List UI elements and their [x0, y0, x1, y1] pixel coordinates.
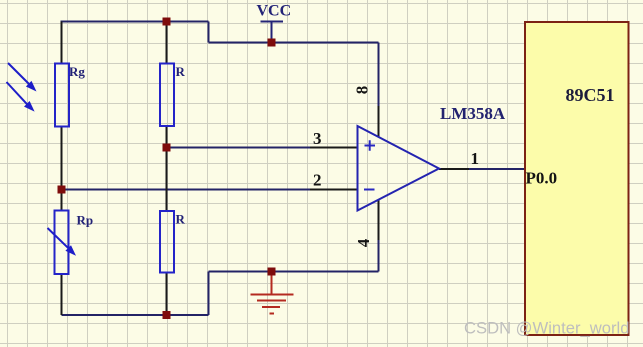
pin 4 stub of op-amp	[378, 200, 380, 240]
svg-text:LM358A: LM358A	[440, 104, 506, 123]
resistor R2 body	[160, 211, 174, 273]
junction at top rail / R1 branch	[163, 18, 171, 26]
svg-text:VCC: VCC	[257, 3, 292, 20]
svg-text:CSDN @Winter_world: CSDN @Winter_world	[464, 319, 630, 338]
svg-text:R: R	[176, 212, 186, 227]
svg-text:2: 2	[313, 171, 322, 190]
svg-text:P0.0: P0.0	[526, 169, 558, 188]
op-amp U1 triangle	[358, 126, 440, 211]
svg-text:1: 1	[471, 149, 480, 168]
svg-text:8: 8	[352, 86, 371, 95]
op-amp minus input marker	[364, 189, 375, 191]
wire: middle branch vertical between R1 and R2	[166, 127, 168, 212]
wire: step-up vertical at x=208	[208, 272, 210, 316]
wire: vertical up to op-amp pin 4	[378, 240, 380, 272]
wire: left branch vertical lower lead	[61, 274, 63, 315]
svg-text:89C51: 89C51	[566, 85, 615, 105]
wire: node A net to pin 3	[167, 147, 311, 149]
wiper arrow through Rp	[48, 228, 77, 256]
svg-text:3: 3	[313, 129, 322, 148]
pin 8 stub of op-amp	[378, 106, 380, 137]
junction at VCC rail	[268, 39, 276, 47]
resistor Rp body	[55, 211, 69, 275]
pin 2 stub of op-amp	[310, 189, 358, 191]
node B junction (pin 2 net)	[58, 186, 66, 194]
node A junction (pin 3 net)	[163, 144, 171, 152]
junction at bottom rail	[163, 311, 171, 319]
wire: op-amp output to 89C51 P0.0	[469, 168, 525, 170]
svg-text:R: R	[176, 64, 186, 79]
wire: ground rail to op-amp pin 4	[209, 271, 379, 273]
resistor R1 body	[160, 64, 174, 127]
wire: middle branch vertical lower lead	[166, 273, 168, 316]
svg-text:Rp: Rp	[77, 213, 94, 228]
wire: step-down vertical at x=208	[208, 22, 210, 43]
svg-text:Rg: Rg	[69, 64, 85, 79]
wire: top rail from left branch to step corner	[61, 21, 209, 23]
junction at ground rail	[268, 268, 276, 276]
pin 3 stub of op-amp	[310, 147, 358, 149]
wire: left branch vertical between Rg and Rp	[61, 127, 63, 211]
ground symbol	[251, 274, 294, 314]
op-amp plus input marker	[365, 140, 376, 150]
light arrow 1 into Rg	[8, 63, 37, 92]
wire: node B net to pin 2	[62, 189, 311, 191]
power symbol VCC	[261, 22, 284, 43]
resistor Rg body	[55, 64, 69, 127]
light arrow 2 into Rg	[7, 82, 35, 112]
svg-text:4: 4	[354, 238, 373, 247]
IC 89C51 body	[525, 22, 629, 335]
wire: middle branch vertical upper lead	[166, 22, 168, 64]
wire: left branch vertical upper lead	[61, 22, 63, 64]
wire: VCC rail to op-amp pin 8	[209, 42, 379, 44]
wire: bottom rail	[62, 314, 209, 316]
pin 1 stub of op-amp output	[439, 168, 469, 170]
wire: vertical down to op-amp pin 8	[378, 43, 380, 107]
